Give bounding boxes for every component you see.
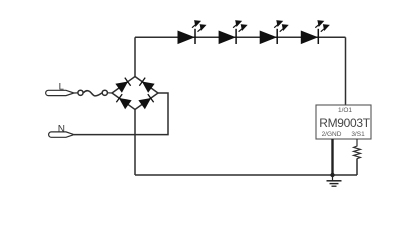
bridge diode top-left <box>116 78 131 92</box>
ground <box>327 175 342 186</box>
LED D4 <box>301 21 329 44</box>
svg-text:3/S1: 3/S1 <box>351 131 365 138</box>
wire fuse to bridge <box>107 92 112 94</box>
node junction GND rail <box>330 173 334 177</box>
wire N to bridge right corner <box>74 93 168 135</box>
op-amp U1 RM9003T box <box>316 105 371 139</box>
svg-text:1/O1: 1/O1 <box>338 107 352 114</box>
resistor R1 <box>354 139 361 159</box>
bridge diode bottom-right <box>139 94 154 108</box>
bridge rectifier BD1 outline <box>112 77 158 110</box>
terminal N <box>49 132 74 137</box>
bridge diode top-right <box>139 78 154 92</box>
wire U1 GND thick <box>331 139 333 176</box>
wire bottom rail up to resistor <box>356 159 358 176</box>
svg-text:2/GND: 2/GND <box>322 131 342 138</box>
svg-text:RM9003T: RM9003T <box>319 116 371 130</box>
fuse F1 <box>78 90 108 96</box>
wire bottom rail <box>135 174 357 176</box>
LED D1 <box>178 21 206 44</box>
terminal L <box>46 90 74 95</box>
svg-text:N: N <box>58 124 65 135</box>
LED D2 <box>219 21 247 44</box>
wire L to fuse <box>74 92 78 94</box>
LED D3 <box>260 21 288 44</box>
bridge diode bottom-left <box>116 94 131 108</box>
wire bridge plus to top rail <box>134 37 136 76</box>
wire top rail <box>135 36 346 38</box>
wire top rail down to U1 pin 1 <box>345 37 347 105</box>
wire bridge minus down to bottom rail <box>134 110 136 176</box>
